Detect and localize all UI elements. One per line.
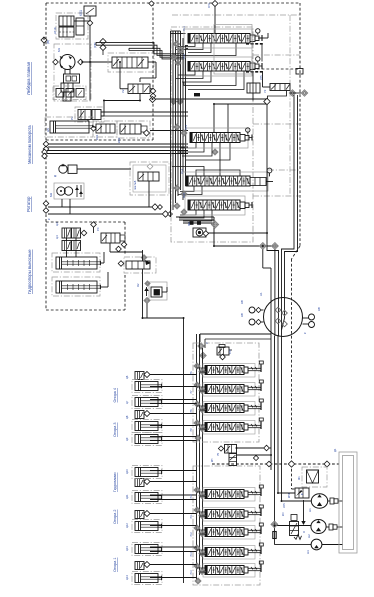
valve U2 [128,84,150,94]
connector (V) [41,37,50,44]
connector KO3 bottom [144,298,150,304]
section label swing [27,125,32,164]
label KO3 [136,283,140,287]
valve B frame [117,121,150,138]
cylinder op3a [135,422,162,431]
bank1 row4 connectors [194,420,205,432]
svg-text:У3: У3 [263,89,267,93]
label cyl Ц13 [125,546,129,551]
label bank2 r5 [190,570,193,575]
svg-text:Р11: Р11 [190,514,193,519]
bank1 row4 rod [248,422,261,430]
block KO3 [151,287,162,297]
outrigger cyl 2 [56,281,101,293]
bank2 row4 connectors [194,545,205,557]
chassis boundary dashed vertical [291,259,293,464]
gray rail row2 [253,54,300,56]
label F1 [297,476,301,480]
bank2 row5 stubs [197,568,206,572]
bank2 valve row4 [205,548,244,557]
label top rows [181,25,188,198]
svg-text:МН1: МН1 [208,2,211,8]
bank1 row4 end [244,424,248,430]
cylinder op4b [135,398,162,407]
label KO4 [281,513,285,517]
wire motor out [81,61,112,63]
wire drop c3 [278,252,280,336]
bank row1 frame [184,29,252,48]
bank bus v2 [172,31,174,210]
wire D right [77,168,131,170]
label opora4 [113,388,117,403]
svg-text:Р1.1: Р1.1 [183,25,186,31]
label R bank2 [210,452,220,462]
coupler left 2 [249,319,264,325]
connector row3 left [174,124,187,136]
svg-text:Гидроопоры выносные: Гидроопоры выносные [27,249,32,294]
connector KO1 [91,126,96,131]
connector op4a [144,372,150,378]
wire loop row3 c [182,143,212,156]
svg-text:Ф1: Ф1 [297,476,301,480]
engine frame inner [343,456,354,550]
svg-text:КП2: КП2 [229,349,232,354]
bank2 row3 stubs [197,530,206,534]
bank1 row1 connectors [194,363,205,375]
main line P2 [214,104,267,133]
bank2 row3 cap [259,523,263,526]
svg-text:Ц4: Ц4 [55,235,59,239]
wire op1a line0 [150,513,197,515]
bank2 row1 frame [203,488,255,502]
coupler left 1 [249,307,264,313]
wire op1b line1 [150,551,197,553]
bank2 row2 cap [259,505,263,508]
bank2 top valve b [229,454,237,466]
wire op2a line0 [150,470,197,472]
svg-text:Д1: Д1 [333,448,337,452]
wire loop row5 c [183,210,212,221]
label RV [93,42,97,48]
connector main line left [150,97,156,103]
check valve KO1 frame [93,121,117,137]
pilot sub-box dashed [252,68,300,70]
bank1 row1 cap [259,361,263,364]
svg-text:Р14: Р14 [190,570,193,575]
row1 bold dash [246,43,264,45]
label bank2 r3 [190,532,193,537]
cylinder op2a [135,468,162,477]
wire suction [278,526,302,540]
svg-text:Р1.2: Р1.2 [183,53,186,59]
wire loop row4 top2 [172,167,204,177]
hydrolock pair 1 [62,228,81,238]
machine platform boundary right upper [299,3,301,246]
label cyl Ц7 [125,400,129,404]
svg-text:Ц14: Ц14 [125,575,129,580]
wire loop row1 b [176,43,203,50]
bank1 row2 cap [259,380,263,383]
label cyl Ц9 [125,437,129,441]
svg-text:М2: М2 [49,193,53,197]
svg-text:М1: М1 [57,48,61,52]
pilot valve U3 [270,84,290,91]
wire main blob [194,93,200,96]
wire outrigger feed [100,252,104,263]
outrigger valve R4 [101,233,125,243]
row4 pilot [267,168,272,176]
svg-text:Р2: Р2 [70,116,74,120]
cylinder op1a frame [132,520,162,533]
wires R2 right [101,112,188,116]
wire NP right [140,62,156,82]
wire inter-row 34 [219,143,221,176]
svg-text:Р10: Р10 [190,494,193,499]
svg-text:Ротатор: Ротатор [26,196,31,212]
connector op3a [144,411,150,417]
bank2 row1 rod [248,489,261,497]
main bank outer frame [171,27,253,242]
pump N3 [311,539,322,550]
wire drop c5 [282,254,285,330]
tank marks [271,532,277,539]
wire MN1 down [252,93,254,101]
bank2 valve row1 [205,490,244,499]
label AV2 [303,307,321,334]
bank2 top valve [218,445,236,454]
wire loop row5 a [180,210,196,215]
connector bus crossing a [171,99,177,105]
valve R2 frame [75,107,104,122]
cylinder op1a [135,522,162,531]
outrigger cyl 1 [56,257,101,269]
svg-text:Опора 1: Опора 1 [113,557,117,572]
wire U2 to drain [150,88,153,90]
hydrolock op2a [135,479,144,487]
wire loop row1 a [178,43,195,47]
cylinder op4a [135,382,162,391]
section label outriggers [27,249,32,294]
label KP1 [79,10,83,16]
svg-text:МН: МН [187,222,191,226]
wire KO3 down [146,304,148,319]
valve MN3 frame [124,257,156,273]
connector row2 left [171,55,181,67]
label M1 [57,48,61,52]
wire bus 3 [47,150,188,152]
connector MN3 top [141,255,147,261]
label AT F [53,27,57,34]
chassis boundary dashed vertical to pumps [291,464,293,489]
wire R1 pilot up [214,6,216,33]
svg-text:КО5: КО5 [283,503,286,508]
label cyl Ц6 [125,375,129,379]
wire op1c line0 [150,564,197,566]
swing motor frame [54,44,91,101]
svg-text:Ц7: Ц7 [125,400,129,404]
wire N3 in [275,544,312,546]
gearbox mid [61,83,73,92]
label bank2 r2 [190,514,193,519]
svg-text:КП5: КП5 [260,75,263,80]
svg-text:Р4: Р4 [96,227,100,231]
coupler N2 [326,524,343,530]
svg-text:Ф2: Ф2 [136,283,140,287]
bank row2 frame [184,57,252,76]
brake valve NP [112,57,148,68]
connector rotor mid b [162,211,172,217]
label cyl Ц8 [125,415,129,419]
bank1 row3 connectors [194,401,205,413]
bank2 row5 cap [259,561,263,564]
svg-text:Ц12: Ц12 [125,523,129,528]
cylinder op1b frame [132,543,162,556]
svg-text:АВ: АВ [240,300,244,304]
port marks [190,221,202,225]
outrigger box dashed bottom [46,309,125,311]
wire op2a line1 [150,481,197,483]
wire KP4 [278,492,295,494]
bank2 bottom connector [195,578,201,584]
wire N1 in [282,500,312,502]
label opora1 [113,557,117,572]
label bank1 r3 [190,409,193,413]
bank1 top valve KP3 [217,345,232,360]
wire U2 down [101,94,140,117]
bank2 row5 rod [248,565,261,573]
svg-text:КО1: КО1 [95,134,99,140]
label MN2 [187,222,191,226]
pump N1 [311,494,327,508]
connector op1a [144,511,150,517]
wire op3b line1 [150,440,197,442]
wire locks to cyl [67,238,77,257]
connector label K [47,218,51,220]
wire MN3 vert [142,250,144,318]
row1 end box [250,35,262,42]
gearbox lower [63,92,71,101]
svg-text:Н3: Н3 [306,550,310,554]
connector collect a [259,243,266,250]
svg-text:Р13: Р13 [190,552,193,557]
pilot gray box rows12 [214,25,252,75]
cylinder op2b frame [132,491,162,504]
bank1 valve row1 [205,366,244,375]
cooler-filter frame [56,13,88,39]
label opora3 [113,422,117,437]
coupler right 1 [303,314,315,320]
connector pump dash c [253,455,258,460]
wire loop row1 d [184,43,236,56]
label KP3 [206,342,232,354]
connector top boundary [212,1,218,7]
valve row3 [190,133,240,143]
row2 bold dash [246,71,264,73]
svg-text:КО2: КО2 [117,137,121,143]
bank2 row5 end [244,567,248,573]
tank box [76,18,84,35]
bank2 row4 frame [203,546,255,560]
filter F [59,27,74,37]
lower bank top rail [200,334,271,348]
block KO3 frame [149,282,167,300]
wire N3 coupler [322,544,343,546]
outrigger box dashed top [46,221,125,223]
suction valve [290,515,299,536]
cylinder op2b [135,493,162,502]
bank1 valve row4 [205,423,244,432]
connector KO3 top [145,281,150,286]
label cyl Ц14 [125,575,129,580]
label U2 [121,89,125,93]
cylinder op2a frame [132,466,162,479]
pump D [59,164,77,174]
check valve KO1 [96,124,115,133]
wire B right [150,130,188,132]
wire row1 row2 link [261,43,263,62]
wire U3 [263,71,302,99]
coupler N1 [328,498,343,504]
rotor check valves [75,185,83,197]
label opora2 [113,509,117,524]
svg-text:АВ: АВ [317,307,321,311]
svg-text:Лебёдка главная: Лебёдка главная [26,62,31,95]
brake valve NP frame [108,53,154,72]
bank1 row2 stubs [197,387,206,391]
lower bus main [183,318,185,583]
wire op4a line0 [150,374,197,376]
label M2 [49,193,53,197]
bank2 row3 connectors [194,525,205,537]
wire bus 1 [48,143,188,145]
row3 end box [240,135,252,142]
bank1 row4 frame [203,421,255,435]
label cyl Ц11 [125,494,129,499]
gray rail row4 [268,169,300,171]
swing motor M1 [60,55,75,70]
connector cluster left b [42,149,48,159]
drain KP4 [301,500,305,525]
label KO1 [95,134,99,140]
bank row3 frame [186,128,248,148]
hydrolock op3a [135,411,144,419]
lower bus v4 [202,348,204,570]
pump unit boundary dashed [212,463,339,465]
svg-text:Р12: Р12 [190,532,193,537]
bank2 row4 stubs [197,550,206,554]
bank1 row3 cap [259,399,263,402]
aux connector right [264,445,270,451]
wire loop row2 a [178,71,195,75]
coupler right 2 [303,322,315,328]
wire drop c1 [263,249,271,336]
svg-text:Ц3: Ц3 [55,222,59,226]
bank1 row3 frame [203,402,255,416]
bank1 row4 cap [259,418,263,421]
bank1 valve row3 [205,404,244,413]
bank1 row2 frame [203,383,255,397]
filter frame [302,467,327,487]
bank2 row5 frame [203,564,255,578]
section label winch [26,62,31,95]
wire loop row4 a [180,186,194,192]
bank bus v5 [180,31,182,190]
bank bus top ties [171,31,186,34]
label bank1 r2 [190,390,193,394]
svg-text:Ц13: Ц13 [125,546,129,551]
wire R2 to cyl [87,120,89,122]
bank1 row3 end [244,405,248,411]
wire bank link [237,447,272,449]
connector bus crossing b [177,99,183,105]
wire op4a line1 [150,386,197,388]
wire KP1 down [89,26,91,101]
pressure block [56,89,84,98]
valve row4 [186,176,250,186]
wire cooler to riser [74,20,90,22]
connector bank mid [211,221,218,228]
main bank top rail [172,14,300,16]
wire riser x294 [282,97,298,254]
bank2 valve row5 [205,566,244,575]
bank2 row1 stubs [197,492,206,496]
connector cluster left a [43,141,49,152]
connector main line [264,98,270,104]
lower bank2 frame [193,466,260,585]
svg-text:Ф: Ф [301,493,304,495]
bank bus v6 [182,38,184,200]
relief valve KP1 [84,6,96,22]
wire rotor 1 [48,206,152,208]
valve MN3 [126,260,151,269]
wire op3a line1 [150,425,197,427]
wire loop row2 e [188,71,244,90]
connector rotor mid a [152,204,163,210]
aux pump MN2 [193,228,206,237]
wire U2 left [120,62,128,89]
pilot subbox component [296,69,303,75]
svg-text:АТ Ф: АТ Ф [53,27,57,34]
bank2 row3 end [244,529,248,535]
gearbox upper [64,74,80,83]
gray rail row5 [253,195,300,197]
connector mid bank [212,149,218,155]
wire loop row2 d [184,71,236,86]
filter F1 [307,470,319,483]
label cyl Ц10 [125,469,129,474]
connector pump dash b [266,461,330,467]
svg-text:Р1.5: Р1.5 [183,192,186,198]
valve KP4 [295,488,309,498]
connector collect b [272,243,279,250]
bank2 row2 stubs [197,512,206,516]
svg-text:Ц9: Ц9 [125,437,129,441]
wire op1c line1 [150,577,197,579]
motor port connector right [78,59,84,65]
bank2 row3 frame [203,526,255,540]
wire loop row1 c [188,43,211,53]
label AV1 [240,300,244,317]
wire op1a line1 [150,525,197,527]
svg-text:Опора 2: Опора 2 [113,509,117,524]
hydrolock op1a [135,511,144,519]
label R2 [70,116,74,120]
hydrolock pair 2 [62,241,81,251]
wire loop row4 top [196,170,240,176]
bank2 row2 end [244,511,248,517]
connector U3 a [289,90,295,96]
cylinder op3a frame [132,420,162,433]
